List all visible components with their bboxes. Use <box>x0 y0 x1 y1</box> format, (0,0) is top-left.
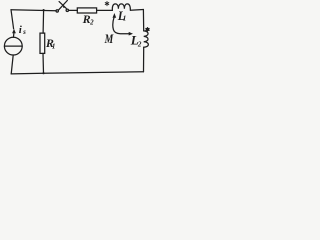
svg-text:2: 2 <box>89 19 94 27</box>
svg-text:1: 1 <box>123 15 127 23</box>
svg-text:s: s <box>22 28 26 36</box>
svg-text:1: 1 <box>52 42 56 50</box>
svg-text:M: M <box>104 33 114 47</box>
svg-text:2: 2 <box>137 41 142 49</box>
